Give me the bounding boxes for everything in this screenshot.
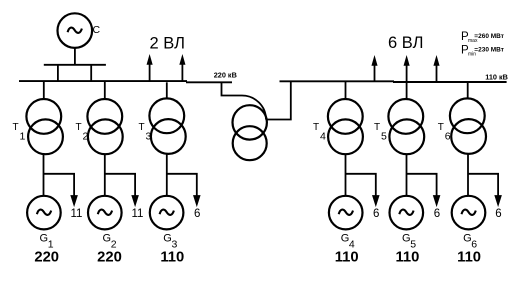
generator G1 [27,196,61,230]
system source C [58,13,93,48]
svg-text:11: 11 [132,208,144,220]
line arrow VL3 right [434,57,439,82]
transformer T1 [26,99,63,154]
svg-text:6: 6 [373,208,379,220]
line arrow VL1 left [147,56,152,81]
label Pmax=260 МВт [461,31,504,44]
label T3 [139,122,152,143]
generator G2 [88,196,122,230]
wire bus to T1 [43,82,45,99]
svg-text:110: 110 [457,250,481,266]
wire T2 to G2 [104,154,106,196]
svg-text:6: 6 [434,208,440,220]
svg-text:110: 110 [160,250,184,266]
wire system bar [44,64,106,66]
line arrow VL2 right [404,57,409,82]
generator G4 [329,196,363,230]
wire bus to T4 [345,82,347,99]
load branch G1 [44,174,78,206]
svg-text:5: 5 [381,131,387,143]
wire coupling transformer to 110 bus [267,82,291,120]
load branch G2 [105,174,138,206]
wire system link right [90,65,92,82]
svg-text:Т: Т [139,122,145,133]
svg-text:=230 МВт: =230 МВт [474,47,504,54]
label T6 [438,122,451,143]
load branch G4 [346,174,379,206]
generator G3 [150,196,184,230]
svg-text:6: 6 [194,208,200,220]
svg-text:1: 1 [20,131,26,143]
bus 220 kV [19,81,232,82]
label T2 [76,122,89,143]
line arrow VL1 right [372,57,377,82]
wire T5 to G5 [406,154,408,196]
load branch G6 [468,174,501,206]
load branch G5 [407,174,440,206]
wire T1 to G1 [43,154,45,196]
load branch G3 [167,174,200,206]
wire bus to T6 [467,82,469,99]
transformer T4 [328,99,363,154]
svg-text:2: 2 [83,131,89,143]
svg-text:6: 6 [495,208,501,220]
svg-text:220: 220 [34,250,59,266]
svg-text:110 кВ: 110 кВ [485,72,508,81]
svg-text:110: 110 [395,250,419,266]
wire bus to T3 [166,82,168,98]
svg-text:=260 МВт: =260 МВт [474,33,504,40]
svg-text:6 ВЛ: 6 ВЛ [388,34,423,52]
coupling transformer [233,105,267,160]
wire system stem [74,48,76,65]
label G3 [163,233,177,251]
label G5 [402,233,416,251]
svg-text:220: 220 [97,250,122,266]
label Pmin=230 МВт [461,44,504,57]
svg-text:6: 6 [445,131,451,143]
wire T4 to G4 [345,154,347,196]
svg-text:4: 4 [320,131,326,143]
transformer T5 [388,99,424,154]
svg-text:С: С [93,24,101,36]
label T1 [13,122,26,143]
label G6 [463,233,477,251]
wire bus to T5 [406,82,408,99]
svg-text:2 ВЛ: 2 ВЛ [150,34,185,52]
svg-text:110: 110 [335,250,359,266]
svg-text:11: 11 [71,208,83,220]
svg-text:Т: Т [76,122,82,133]
wire bus to T2 [104,82,106,99]
wire T3 to G3 [166,154,168,196]
svg-text:3: 3 [146,131,152,143]
bus 110 kV [280,80,507,83]
svg-text:220 кВ: 220 кВ [214,70,237,79]
wire system link left [57,65,59,82]
transformer T3 [149,98,185,153]
line arrow VL2 left [180,56,185,81]
svg-text:Т: Т [313,122,319,133]
label G4 [341,233,355,251]
svg-text:Т: Т [13,122,19,133]
generator G6 [452,196,486,230]
wire T6 to G6 [467,154,469,196]
transformer T2 [87,99,122,154]
transformer T6 [450,98,486,153]
svg-text:Т: Т [374,122,380,133]
wire 220 bus to coupling transformer [222,82,267,119]
label T4 [313,122,326,143]
generator G5 [390,196,424,230]
svg-text:Т: Т [438,122,444,133]
label T5 [374,122,387,143]
label G1 [40,233,54,251]
label G2 [103,233,117,251]
